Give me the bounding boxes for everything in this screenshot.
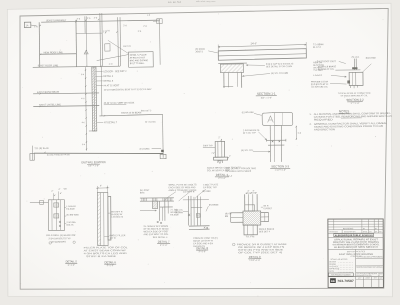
right footing leader	[152, 148, 161, 150]
beam right lobe line	[281, 112, 283, 125]
svg-text:BELOW: BELOW	[175, 212, 184, 214]
svg-text:(E) CONC: (E) CONC	[140, 148, 150, 150]
detail callout 2	[96, 75, 102, 77]
right dimension	[295, 126, 297, 140]
grid vertical at x160	[159, 19, 162, 65]
svg-text:BM: BM	[225, 216, 228, 218]
svg-text:4": 4"	[247, 191, 249, 193]
post below beam	[269, 126, 271, 162]
anchor bolts	[217, 160, 219, 163]
detail callout ledger	[96, 70, 102, 72]
beam left stub D	[231, 212, 243, 214]
svg-text:REVISIONS: REVISIONS	[343, 228, 354, 230]
bolt x marks A	[59, 221, 61, 223]
svg-text:STIFF R EA SIDE: STIFF R EA SIDE	[86, 255, 117, 258]
svg-text:SEE DETAIL 3 FOR CONN: SEE DETAIL 3 FOR CONN	[266, 65, 292, 68]
svg-text:EXIST BM: EXIST BM	[366, 58, 376, 60]
svg-text:763-70587: 763-70587	[337, 279, 354, 283]
support block	[220, 64, 243, 73]
svg-text:EXIST ROOF LINE: EXIST ROOF LINE	[38, 64, 59, 67]
boxed keynote	[128, 52, 153, 68]
svg-text:AT EXIST BEAM CONN W/: AT EXIST BEAM CONN W/	[84, 249, 127, 252]
detail callout 3	[97, 80, 103, 82]
ground line	[34, 152, 164, 156]
info row	[328, 232, 383, 234]
svg-text:W/ WASHERS: W/ WASHERS	[51, 241, 66, 244]
exist beam sketch outline	[262, 112, 293, 125]
bolt marks C1	[157, 221, 159, 223]
svg-text:FILLER PLATE TOP OF COL: FILLER PLATE TOP OF COL	[84, 246, 129, 249]
svg-text:BB: BB	[331, 279, 335, 283]
top dimension D	[246, 192, 257, 194]
svg-text:SECTION 2-2: SECTION 2-2	[346, 98, 364, 102]
exist beam line	[99, 114, 162, 116]
post below beam C1	[159, 201, 161, 221]
beam web divider	[273, 113, 275, 126]
svg-text:AT EACH JOIST: AT EACH JOIST	[130, 56, 146, 59]
svg-text:JOISTS: JOISTS	[195, 51, 203, 53]
bottom flange C2	[189, 225, 210, 227]
svg-text:a.s. an. 5-2: a.s. an. 5-2	[168, 0, 182, 4]
title block outer border	[328, 219, 384, 288]
svg-text:3"=1'-0": 3"=1'-0"	[68, 265, 76, 267]
svg-text:2": 2"	[218, 137, 220, 139]
svg-text:DETAIL 9: DETAIL 9	[249, 255, 261, 259]
clip angle box	[40, 200, 44, 204]
svg-text:BOLTS: BOLTS	[67, 225, 74, 227]
clip hatch block upper A	[54, 203, 59, 207]
owner separator	[328, 248, 383, 250]
mid line C2	[191, 206, 202, 208]
svg-text:24'-6": 24'-6"	[251, 42, 258, 45]
paper specks	[134, 49, 137, 52]
bolt X mark C2	[188, 214, 190, 216]
beam bottom flange C1	[160, 206, 173, 208]
vertical dimension line	[85, 67, 86, 150]
svg-text:EL 12'-6: EL 12'-6	[313, 47, 321, 49]
svg-text:AT DETAIL 7: AT DETAIL 7	[104, 121, 118, 124]
title block group	[328, 219, 384, 288]
svg-text:EA SIDE AND 4-3/4: EA SIDE AND 4-3/4	[193, 242, 214, 245]
svg-text:EXIST 24 IN BEAM: EXIST 24 IN BEAM	[121, 111, 141, 114]
svg-text:2-3/4 DIA BOLTS: 2-3/4 DIA BOLTS	[243, 129, 260, 132]
svg-text:OF ANGLE BOTH SIDES: OF ANGLE BOTH SIDES	[226, 170, 252, 173]
top wall stud right pair	[99, 13, 102, 66]
svg-text:SHEET: SHEET	[378, 273, 383, 275]
section marker A	[84, 50, 88, 54]
svg-text:1/2 STIFF R: 1/2 STIFF R	[183, 192, 195, 194]
splice plate lower	[268, 144, 284, 146]
svg-text:(E) BM WEB: (E) BM WEB	[66, 214, 79, 216]
svg-text:REQUIRED: REQUIRED	[314, 118, 333, 121]
grid detail marker	[24, 22, 30, 27]
svg-text:6": 6"	[100, 185, 102, 187]
svg-text:3" = 1'-0": 3" = 1'-0"	[351, 103, 360, 105]
bottom detail A group	[30, 188, 80, 267]
svg-text:DEPT OF FACILITIES: DEPT OF FACILITIES	[347, 250, 366, 253]
exist roof line	[33, 66, 120, 67]
svg-text:DETAIL 6: DETAIL 6	[104, 260, 116, 264]
tick marker at parapet right	[157, 19, 162, 24]
svg-text:EXIST ROOF JOIST: EXIST ROOF JOIST	[317, 61, 337, 63]
svg-text:with what carry over: with what carry over	[196, 0, 216, 3]
base plate	[214, 157, 228, 160]
svg-text:1/4" R: 1/4" R	[109, 238, 116, 240]
caption D	[232, 243, 235, 246]
beam section A mark	[268, 116, 274, 123]
web verticals C2	[187, 196, 189, 225]
grid line at beam bearing	[100, 66, 103, 115]
column section A	[48, 200, 64, 231]
svg-text:APS PROJECT NUMBER: APS PROJECT NUMBER	[331, 273, 351, 276]
svg-text:DETAIL 8: DETAIL 8	[196, 246, 208, 250]
bottom detail B group	[83, 185, 129, 267]
new roof line	[40, 53, 77, 55]
svg-text:EA SIDE OF COL: EA SIDE OF COL	[318, 68, 335, 71]
beam top flange lines C1	[140, 197, 174, 199]
connection plate D	[245, 205, 255, 211]
support cap plate	[218, 62, 247, 64]
svg-text:DETAIL 5, PLACE: DETAIL 5, PLACE	[130, 54, 147, 57]
svg-text:SEE DETAIL 4: SEE DETAIL 4	[153, 236, 168, 239]
bottom bolt marks C2	[204, 227, 206, 229]
gusset hatch C2	[196, 214, 200, 218]
angle connection detail group	[311, 56, 376, 105]
svg-text:1 1/2"=1'-0": 1 1/2"=1'-0"	[249, 260, 260, 262]
svg-text:4": 4"	[252, 190, 254, 192]
bolt blob	[347, 80, 350, 83]
svg-text:L 4x4x1/4: L 4x4x1/4	[313, 75, 323, 77]
wall column member	[92, 67, 97, 131]
svg-text:ANGLE FILLER: ANGLE FILLER	[109, 234, 125, 237]
bottom detail C1 group	[140, 183, 197, 247]
svg-text:DT: DT	[375, 228, 377, 230]
svg-text:1A: 1A	[25, 24, 28, 27]
svg-text:DETAIL 7: DETAIL 7	[158, 240, 170, 244]
post	[215, 141, 225, 157]
svg-text:AT 4'-0 OC: AT 4'-0 OC	[145, 121, 156, 124]
left wall edge line	[38, 22, 41, 67]
svg-text:2-3/4 DIA: 2-3/4 DIA	[67, 221, 77, 224]
svg-text:4'-0: 4'-0	[81, 98, 84, 100]
parapet line (exist)	[41, 20, 159, 22]
svg-text:(E) BEAM: (E) BEAM	[209, 203, 219, 206]
svg-text:DETAIL 5: DETAIL 5	[66, 259, 78, 263]
svg-text:(E) CONC FTG BELOW TYP UNO: (E) CONC FTG BELOW TYP UNO	[47, 154, 70, 156]
beam right stub D	[261, 212, 269, 214]
svg-text:3"=1'-0": 3"=1'-0"	[218, 178, 226, 180]
svg-text:AND ERECTION: AND ERECTION	[314, 128, 335, 131]
svg-text:(N) L4x4: (N) L4x4	[352, 57, 361, 59]
svg-text:EAST WALL ELEVATION: EAST WALL ELEVATION	[81, 160, 105, 164]
svg-text:DATE: DATE	[329, 270, 334, 273]
svg-text:3"=1'-0": 3"=1'-0"	[107, 265, 115, 267]
side plate B	[108, 197, 111, 241]
hatched column section C1	[152, 201, 157, 208]
svg-text:SECTION 1-1: SECTION 1-1	[257, 92, 276, 96]
svg-text:1 1/2"=1'-0": 1 1/2"=1'-0"	[275, 170, 287, 172]
clip hatch block lower A	[54, 214, 59, 218]
svg-text:#5 AT 32 OC VERT W/ HOOK: #5 AT 32 OC VERT W/ HOOK	[104, 101, 135, 104]
base square	[349, 72, 363, 85]
svg-text:EA SIDE: EA SIDE	[66, 208, 75, 211]
svg-text:2": 2"	[51, 191, 53, 193]
revision table columns	[333, 219, 335, 230]
svg-text:3"=1'-0": 3"=1'-0"	[199, 251, 207, 253]
svg-text:16 GA HORIZONTAL BENT R AT 32: 16 GA HORIZONTAL BENT R AT 32 OC EA WAY	[104, 88, 153, 92]
svg-text:4'-0: 4'-0	[82, 122, 85, 124]
member bottom cap	[89, 130, 97, 132]
connection weld blob	[352, 67, 357, 69]
support column	[223, 73, 225, 88]
left leader C1	[140, 210, 156, 212]
svg-text:(E) 8 BM: (E) 8 BM	[202, 191, 210, 193]
svg-text:ALBUQUERQUE NEW MEXICO: ALBUQUERQUE NEW MEXICO	[334, 246, 379, 249]
left leader line	[30, 201, 48, 203]
svg-text:GUSSET: GUSSET	[263, 208, 273, 210]
development dept row	[356, 265, 384, 267]
column splice line	[223, 86, 233, 88]
svg-text:SECTION 3-3: SECTION 3-3	[271, 164, 289, 168]
svg-text:2: 2	[211, 152, 212, 154]
svg-text:WEB EA SIDE OF POST: WEB EA SIDE OF POST	[143, 230, 169, 233]
beam dimension line	[218, 45, 306, 47]
svg-text:3/4" = 1'-0": 3/4" = 1'-0"	[261, 97, 272, 99]
svg-text:ANGLE BRACE: ANGLE BRACE	[259, 228, 275, 231]
svg-text:3'-4: 3'-4	[82, 144, 85, 146]
svg-text:EA SIDE W/: EA SIDE W/	[111, 213, 123, 216]
splice bolts	[272, 141, 274, 143]
splice plate upper	[266, 139, 285, 141]
svg-text:BRG: BRG	[140, 192, 145, 194]
right end grid vertical	[162, 115, 165, 158]
logo	[330, 278, 336, 283]
svg-text:T.O. (E) SLAB: T.O. (E) SLAB	[34, 147, 49, 150]
svg-text:(E) STL COL: (E) STL COL	[241, 150, 254, 152]
top wall stud left	[75, 20, 78, 67]
svg-text:1": 1"	[229, 156, 231, 158]
top leader line C2	[183, 199, 209, 201]
svg-text:(EXIST) PARAPET: (EXIST) PARAPET	[46, 19, 67, 22]
svg-text:T.O. BEAM: T.O. BEAM	[313, 43, 324, 46]
svg-text:3'-4: 3'-4	[81, 74, 84, 76]
bottom detail C2 group	[175, 183, 219, 253]
svg-text:(E) STL COLUMN: (E) STL COLUMN	[271, 73, 289, 75]
top plate line	[76, 32, 102, 34]
bottom detail D group	[225, 167, 288, 262]
sheet grid header	[356, 271, 384, 273]
svg-text:NEW ROOF LINE: NEW ROOF LINE	[44, 51, 64, 54]
post base detail group	[203, 137, 242, 180]
svg-text:EXIST LINTEL LINE: EXIST LINTEL LINE	[39, 103, 61, 106]
svg-text:BRG AND EXPAND: BRG AND EXPAND	[130, 59, 149, 62]
top wall stud mid	[84, 16, 86, 33]
upper post D	[244, 194, 246, 211]
mid bond beam line	[33, 92, 99, 95]
revision table rows	[328, 221, 383, 223]
beam post section group	[241, 112, 302, 172]
svg-text:EACH SIDE OF WEB AND: EACH SIDE OF WEB AND	[169, 186, 196, 189]
svg-text:OF 3/4 BOLTS AT BEAM: OF 3/4 BOLTS AT BEAM	[143, 228, 168, 231]
svg-text:BOLT TO WALL: BOLT TO WALL	[130, 62, 146, 65]
channel member B	[97, 193, 108, 246]
base block D	[244, 225, 257, 235]
svg-text:DESCRIPTION: DESCRIPTION	[344, 231, 356, 233]
svg-text:4-3/4 BOLTS EA LEG AND: 4-3/4 BOLTS EA LEG AND	[84, 252, 128, 255]
angle post	[353, 59, 355, 70]
detail callout rebar	[97, 85, 103, 87]
bottom grid columns	[363, 277, 365, 288]
second stud pair	[117, 17, 120, 66]
svg-text:AT 3 OC TYP: AT 3 OC TYP	[243, 132, 256, 135]
svg-text:(E) W16 BM: (E) W16 BM	[242, 112, 254, 114]
anchor ticks below base square	[349, 86, 351, 88]
drawing number cell	[328, 273, 353, 276]
gusset square D	[243, 211, 261, 225]
rear vertical C1	[167, 201, 169, 213]
left footing vertical	[31, 146, 33, 161]
left footing box	[30, 154, 34, 161]
svg-text:2-3/4 BOLTS: 2-3/4 BOLTS	[111, 217, 124, 219]
svg-text:4": 4"	[58, 189, 60, 191]
east wall elevation group	[24, 12, 166, 168]
svg-text:#4 AT 32 VERT: #4 AT 32 VERT	[103, 84, 119, 87]
svg-text:SEE DET 4: SEE DET 4	[259, 231, 271, 233]
roof beam	[218, 49, 306, 61]
svg-text:SIM TYP: SIM TYP	[123, 46, 132, 48]
svg-text:DETAIL 3: DETAIL 3	[103, 75, 113, 78]
svg-text:T.O. FTG: T.O. FTG	[246, 236, 255, 238]
svg-text:SEE DET 3: SEE DET 3	[141, 110, 152, 112]
caption A marks	[49, 242, 51, 244]
svg-text:SMALL PLATE W/ 4 BOLTS: SMALL PLATE W/ 4 BOLTS	[169, 183, 197, 186]
roof deck line	[335, 69, 360, 71]
deck rib ticks C1	[141, 198, 143, 201]
svg-text:MUNICIPAL DEVELOPMENT DEPT APP: MUNICIPAL DEVELOPMENT DEPT APPROVAL	[357, 266, 383, 269]
svg-text:4 BOLT PLATE: 4 BOLT PLATE	[203, 183, 219, 186]
svg-text:OC INTO (E) COL: OC INTO (E) COL	[311, 87, 329, 89]
detail callout 7	[97, 121, 103, 123]
svg-text:LEDGER · SEE DET 2: LEDGER · SEE DET 2	[103, 71, 127, 73]
svg-text:DETAIL 5: DETAIL 5	[103, 80, 113, 83]
svg-text:ALBUQUERQUE PUBLIC SCHOOLS: ALBUQUERQUE PUBLIC SCHOOLS	[335, 234, 374, 237]
svg-text:AND EXP BOLT TO COL: AND EXP BOLT TO COL	[143, 233, 169, 236]
general notes group	[309, 109, 392, 132]
right footing box	[160, 154, 166, 158]
left column divider	[355, 249, 357, 276]
svg-text:EA SIDE TYP: EA SIDE TYP	[203, 186, 217, 189]
svg-text:2-3/4 DIA BOLTS TYP: 2-3/4 DIA BOLTS TYP	[49, 237, 72, 240]
agency header bar	[334, 233, 374, 236]
post leader note	[203, 146, 215, 148]
svg-text:1/4" = 1'-0": 1/4" = 1'-0"	[88, 165, 99, 167]
roof beam section group	[195, 42, 325, 101]
svg-text:3"=1'-0": 3"=1'-0"	[160, 245, 168, 247]
bottom band separator	[328, 276, 383, 278]
brace block	[105, 44, 110, 51]
svg-text:SEE DETAIL 7 FOR BOLTING: SEE DETAIL 7 FOR BOLTING	[226, 167, 257, 170]
svg-text:FIELD DRILL (E) BEAM FOR: FIELD DRILL (E) BEAM FOR	[46, 234, 76, 237]
lower wall line	[33, 105, 99, 108]
svg-text:DESIGNED: DESIGNED	[329, 231, 339, 233]
svg-text:5/8 R TYP: 5/8 R TYP	[203, 145, 213, 147]
